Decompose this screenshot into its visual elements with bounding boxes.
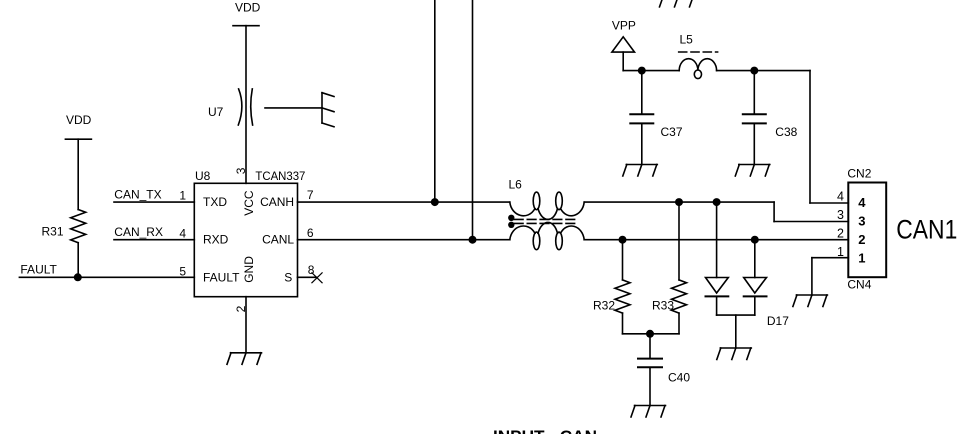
svg-text:R33: R33 [652,299,674,313]
svg-text:S: S [284,270,292,284]
svg-text:3: 3 [858,214,865,229]
svg-text:7: 7 [307,188,314,202]
svg-text:R32: R32 [593,299,615,313]
svg-text:2: 2 [837,226,844,240]
svg-text:4: 4 [179,226,186,240]
svg-text:VDD: VDD [235,1,261,15]
svg-text:D17: D17 [767,314,789,328]
svg-text:TXD: TXD [203,195,227,209]
svg-text:FAULT: FAULT [20,262,57,276]
svg-text:VCC: VCC [242,190,256,216]
svg-text:FAULT: FAULT [203,270,240,284]
svg-text:C40: C40 [668,371,690,385]
svg-text:6: 6 [307,226,314,240]
svg-text:C38: C38 [775,125,797,139]
svg-text:L5: L5 [680,33,694,47]
svg-text:R31: R31 [42,225,64,239]
svg-text:INPUT - CAN: INPUT - CAN [493,427,597,434]
svg-text:4: 4 [837,189,844,203]
svg-text:3: 3 [234,167,248,174]
svg-text:CANL: CANL [262,233,294,247]
svg-text:4: 4 [858,195,866,210]
svg-text:RXD: RXD [203,233,229,247]
svg-text:3: 3 [837,208,844,222]
svg-text:VPP: VPP [612,19,636,33]
svg-text:TCAN337: TCAN337 [255,169,305,183]
svg-text:1: 1 [179,188,186,202]
svg-text:1: 1 [837,245,844,259]
svg-text:CN2: CN2 [847,166,871,180]
svg-text:L6: L6 [509,178,523,192]
svg-text:GND: GND [242,256,256,283]
svg-text:5: 5 [179,264,186,278]
svg-text:U8: U8 [195,169,211,183]
svg-text:1: 1 [858,251,865,266]
svg-text:CN4: CN4 [847,278,871,292]
svg-text:8: 8 [308,263,315,277]
svg-text:C37: C37 [661,125,683,139]
svg-text:CAN_RX: CAN_RX [114,225,163,239]
svg-text:CAN_TX: CAN_TX [114,188,161,202]
svg-text:U7: U7 [208,105,224,119]
svg-text:CAN1: CAN1 [896,215,957,245]
svg-text:CANH: CANH [260,195,294,209]
svg-text:2: 2 [858,232,865,247]
svg-text:VDD: VDD [66,113,92,127]
svg-text:2: 2 [234,305,248,312]
